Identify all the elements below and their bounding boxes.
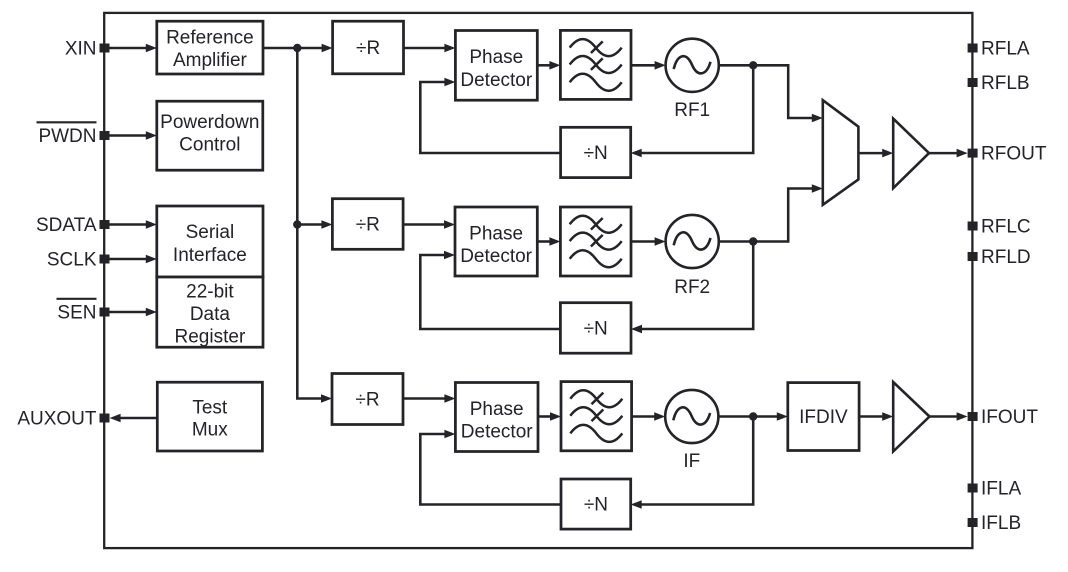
svg-text:Reference: Reference <box>166 27 254 48</box>
op-amp phase detector row3 <box>455 383 538 452</box>
op-amp phase detector row1 <box>455 31 537 101</box>
node VCO output junction row3 <box>749 412 757 420</box>
oscillator VCO IF <box>665 390 718 443</box>
wire phase detector to loop filter row3 <box>538 415 551 418</box>
divider N row3 (÷N) <box>561 479 631 529</box>
svg-text:Phase: Phase <box>469 47 523 68</box>
svg-text:SCLK: SCLK <box>47 250 97 271</box>
svg-text:Phase: Phase <box>470 399 524 420</box>
pin RFOUT <box>968 149 978 158</box>
block Test Mux <box>157 382 262 451</box>
divider N row1 (÷N) <box>561 127 631 177</box>
divider N row2 (÷N) <box>560 303 631 354</box>
svg-text:RFOUT: RFOUT <box>981 144 1047 165</box>
wire VCO IF to IFDIV <box>718 415 777 418</box>
wire Reference Amplifier output to bus <box>263 47 323 50</box>
op-amp phase detector row2 <box>455 207 537 276</box>
pin SEN <box>100 308 110 317</box>
wire divider N back to phase detector row2 <box>420 255 560 329</box>
IF output amplifier (triangle) <box>893 382 929 452</box>
mux (RF output selector) <box>823 100 859 205</box>
wire SCLK input <box>109 258 147 261</box>
wire feedback down to divider N row1 <box>641 65 754 153</box>
block IFDIV <box>788 383 859 451</box>
pin XIN <box>100 44 110 53</box>
wire divider N back to phase detector row3 <box>420 434 561 505</box>
wire VCO RF2 to mux <box>719 189 813 242</box>
svg-text:÷N: ÷N <box>584 319 608 340</box>
svg-text:SDATA: SDATA <box>36 215 97 236</box>
wire IF amplifier to IFOUT pin <box>930 415 958 418</box>
svg-text:÷R: ÷R <box>356 215 380 236</box>
wire loop filter to VCO row2 <box>631 240 656 243</box>
loop filter row3 <box>561 382 632 451</box>
pin PWDN <box>100 131 110 140</box>
divider R row3 (÷R) <box>332 374 403 425</box>
wire AUXOUT output <box>120 417 158 420</box>
pin IFLB <box>968 518 978 527</box>
svg-text:Serial: Serial <box>186 222 235 243</box>
svg-text:÷R: ÷R <box>356 38 380 59</box>
wire divider R to phase detector row3 <box>403 397 445 400</box>
pin SDATA <box>100 220 110 229</box>
svg-text:Interface: Interface <box>173 245 247 266</box>
svg-text:22-bit: 22-bit <box>186 281 234 302</box>
divider R row1 (÷R) <box>333 21 404 74</box>
loop filter row1 <box>560 30 631 99</box>
svg-text:IFLA: IFLA <box>981 479 1021 500</box>
svg-text:RF1: RF1 <box>674 100 710 121</box>
pin SCLK <box>100 255 110 264</box>
oscillator VCO RF2 <box>666 215 719 268</box>
wire mux to RF amplifier <box>858 152 883 155</box>
svg-text:Detector: Detector <box>460 246 532 267</box>
svg-text:IFOUT: IFOUT <box>981 407 1038 428</box>
svg-text:Phase: Phase <box>469 223 523 244</box>
svg-text:RF2: RF2 <box>674 277 710 298</box>
node VCO output junction row2 <box>749 237 757 245</box>
pin RFLA <box>968 44 978 53</box>
svg-text:Detector: Detector <box>461 421 533 442</box>
wire RF amplifier to RFOUT pin <box>929 152 958 155</box>
svg-text:Powerdown: Powerdown <box>160 112 259 133</box>
pin RFLC <box>968 222 978 231</box>
svg-text:RFLA: RFLA <box>981 39 1030 60</box>
node bus junction row2 <box>293 220 301 228</box>
svg-text:RFLB: RFLB <box>981 73 1030 94</box>
svg-text:÷N: ÷N <box>584 143 608 164</box>
wire feedback down to divider N row3 <box>641 417 754 505</box>
svg-text:IFLB: IFLB <box>981 513 1021 534</box>
pin AUXOUT <box>100 414 110 423</box>
svg-text:Data: Data <box>190 304 231 325</box>
loop filter row2 <box>560 207 631 276</box>
pin RFLB <box>968 78 978 87</box>
svg-text:Test: Test <box>192 397 228 418</box>
svg-text:SEN: SEN <box>57 303 96 324</box>
wire feedback down to divider N row2 <box>641 242 753 330</box>
svg-text:÷R: ÷R <box>355 390 379 411</box>
wire SEN input <box>109 311 147 314</box>
svg-text:÷N: ÷N <box>584 495 608 516</box>
svg-text:IF: IF <box>683 451 700 472</box>
block Powerdown Control <box>157 101 263 170</box>
svg-text:AUXOUT: AUXOUT <box>17 409 97 430</box>
svg-text:Detector: Detector <box>460 70 532 91</box>
svg-text:XIN: XIN <box>65 39 97 60</box>
pin IFOUT <box>968 412 978 421</box>
svg-text:Register: Register <box>175 326 246 347</box>
block 22-bit Data Register <box>157 277 263 347</box>
chip boundary <box>104 13 972 548</box>
RF output amplifier (triangle) <box>893 119 929 189</box>
wire IFDIV to IF amplifier <box>859 415 883 418</box>
wire divider N back to phase detector row1 <box>420 82 560 153</box>
wire loop filter to VCO row1 <box>631 64 656 67</box>
wire divider R to phase detector row2 <box>403 223 445 226</box>
wire phase detector to loop filter row2 <box>537 240 550 243</box>
wire XIN input <box>109 47 147 50</box>
wire loop filter to VCO row3 <box>632 415 656 418</box>
block Serial Interface <box>157 206 263 277</box>
overline for PWDN <box>37 121 97 123</box>
svg-text:Amplifier: Amplifier <box>173 50 248 71</box>
block Reference Amplifier <box>157 21 263 74</box>
wire reference bus vertical <box>297 48 322 399</box>
svg-text:IFDIV: IFDIV <box>799 407 848 428</box>
pin RFLD <box>968 252 978 261</box>
overline for SEN <box>57 298 97 300</box>
oscillator VCO RF1 <box>666 39 719 92</box>
divider R row2 (÷R) <box>332 199 403 250</box>
svg-text:Mux: Mux <box>192 419 228 440</box>
node VCO output junction row1 <box>749 61 757 69</box>
wire VCO RF1 to mux <box>719 65 813 118</box>
svg-text:RFLC: RFLC <box>981 217 1031 238</box>
wire PWDN input <box>109 134 147 137</box>
wire SDATA input <box>109 223 147 226</box>
wire divider R to phase detector row1 <box>404 47 446 50</box>
svg-text:RFLD: RFLD <box>981 247 1031 268</box>
wire phase detector to loop filter row1 <box>537 64 550 67</box>
wire bus to divider R2 <box>297 223 322 226</box>
svg-text:PWDN: PWDN <box>38 126 96 147</box>
node bus junction row1 <box>293 44 301 52</box>
svg-text:Control: Control <box>179 135 240 156</box>
pin IFLA <box>968 484 978 493</box>
